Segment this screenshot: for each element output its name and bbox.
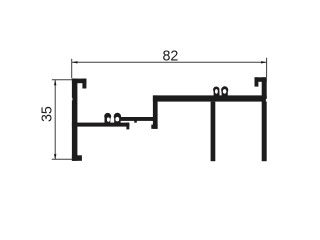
svg-text:35: 35 (40, 106, 56, 122)
svg-text:82: 82 (162, 49, 178, 65)
